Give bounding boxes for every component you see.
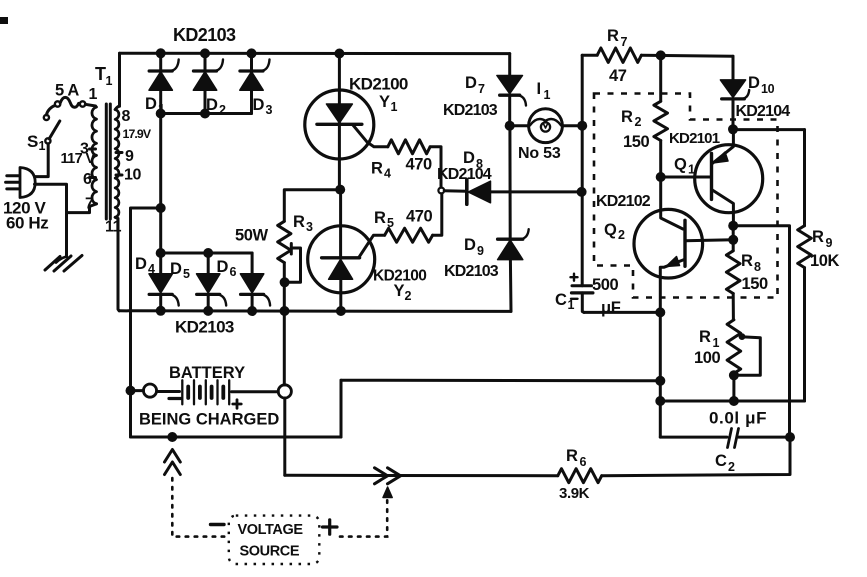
svg-text:R: R [374,209,386,227]
T1 primary tap 3 tick [90,148,96,151]
transistor Q1 KD2101 [661,130,763,226]
transformer T1 primary winding [90,107,97,207]
wire R6 to C2 node [602,437,790,476]
SCR Y2 KD2100 [308,190,385,311]
wire plug neutral to ground node [35,184,67,212]
AC plug P1 [6,168,36,198]
node R1 bottom wiper junction [729,370,739,380]
svg-text:9: 9 [125,148,134,165]
wire R4 to D8 node [430,147,441,188]
label uF (C1) [601,299,621,317]
label 17.9V [123,127,152,141]
label D6 [217,258,237,279]
svg-text:T: T [95,64,106,84]
label Q2 [604,221,625,242]
T1 primary tap 6 tick [90,176,96,179]
scan mark left edge [0,17,8,24]
svg-text:8: 8 [122,108,131,125]
svg-text:2: 2 [618,228,625,242]
resistor R6 3.9K [558,469,602,483]
wire R6 row left [285,474,558,477]
voltage source plus sign [323,520,338,534]
dashed wire voltage source plus lead [340,498,387,537]
label 100 [694,349,721,367]
capacitor C1 500uF [571,274,593,313]
transformer T1 secondary winding [115,106,119,219]
label 150 (R2) [623,133,650,151]
node row C at Q2 emitter column [655,396,665,406]
label R5 [374,209,394,230]
svg-text:150: 150 [623,133,650,151]
label pin 11 [105,219,122,236]
node D2 anode [200,109,210,119]
label pin 10 [124,167,141,184]
svg-text:500: 500 [592,276,619,294]
svg-text:7: 7 [478,82,485,96]
svg-text:10K: 10K [810,252,840,270]
node D5 anode [203,248,213,258]
svg-text:R: R [621,108,633,126]
label D3 [253,96,273,117]
node gate network (open) [438,188,444,194]
label 50W [235,227,269,245]
transformer T1 core [106,104,110,219]
resistor R8 150 [726,226,740,320]
node Q2 base / R8 top [728,235,738,245]
svg-text:4: 4 [148,262,155,276]
label KD2104 (D8) [437,166,492,183]
svg-text:2: 2 [728,460,735,474]
label T1 [95,64,113,88]
svg-text:S: S [27,132,38,151]
svg-text:μF: μF [601,299,621,317]
resistor R9 10K [798,130,812,401]
svg-text:KD2102: KD2102 [596,193,651,210]
node D4 anode [156,248,166,258]
svg-text:R: R [699,328,711,346]
svg-text:I: I [537,80,541,98]
label VOLTAGE [238,522,304,538]
label 0.01 uF [709,409,767,428]
svg-text:9: 9 [826,236,833,250]
wire plug hot to switch [35,144,49,177]
svg-text:R: R [293,213,305,231]
label BATTERY [169,364,245,382]
svg-text:D: D [170,260,182,278]
svg-text:1: 1 [713,336,720,350]
label D7 [465,74,485,96]
svg-text:D: D [145,95,157,113]
diode D8 KD2104 [444,180,581,204]
svg-text:2: 2 [405,289,412,303]
node D10 cathode / Q1 emitter [728,124,738,134]
node Y1-Y2 midpoint [335,185,345,195]
svg-text:D: D [253,96,265,114]
lamp I1 No53 [510,109,583,143]
node D8 anode at C1 column [577,187,587,197]
label Y1 [379,93,398,114]
svg-text:1: 1 [391,100,398,114]
battery minus sign [169,397,181,400]
node D3 cathode at top bus [247,48,257,58]
svg-text:9: 9 [477,244,484,258]
wire D4-D6 anode bus [161,252,252,255]
svg-text:60 Hz: 60 Hz [6,214,48,233]
svg-text:BEING CHARGED: BEING CHARGED [139,411,279,429]
wire R3 bottom to battery positive [283,263,286,385]
diode D1 KD2103 [149,53,179,113]
fuse F1 5A [55,97,85,107]
svg-text:D: D [748,74,760,92]
svg-text:KD2100: KD2100 [349,75,408,94]
label KD2102 [596,193,651,210]
node D4 cathode [156,306,166,316]
R1 wiper arm [736,333,761,375]
svg-text:3: 3 [266,103,273,117]
label R9 [812,228,833,250]
diode D4 KD2103 [149,253,179,311]
wire D10 node to R9 [733,128,805,131]
label Q1 [674,156,695,177]
svg-text:6: 6 [580,455,587,469]
node D7 cathode [505,121,515,131]
svg-text:470: 470 [406,156,433,174]
label KD2103 (D1-D3) [173,25,236,45]
svg-text:Y: Y [394,282,405,300]
label 117V [61,151,96,167]
label pin 1 [89,86,98,103]
svg-text:C: C [715,452,727,470]
svg-text:Q: Q [674,156,687,174]
node Y2 anode at cathode bus [336,306,346,316]
label pin 6 [83,171,92,188]
voltage source plus arrowhead [383,487,392,498]
wire Y1Y2 node to R3 [284,190,340,222]
voltage source minus arrow chevrons [165,450,181,475]
battery plus sign [233,400,241,408]
label KD2100 (Y2) [373,268,426,285]
label 500 [592,276,619,294]
svg-text:BATTERY: BATTERY [169,364,245,382]
resistor R4 470 [388,140,430,154]
capacitor C2 0.01uF [660,429,790,448]
wire fuse to transformer pin 1 [85,104,95,106]
svg-text:KD2104: KD2104 [736,103,791,120]
svg-text:R: R [607,27,619,45]
svg-text:5: 5 [183,267,190,281]
label 470 (R5) [406,208,433,226]
svg-text:470: 470 [406,208,433,226]
svg-text:1: 1 [158,102,165,116]
svg-text:3: 3 [306,220,313,234]
svg-text:R: R [566,447,578,465]
label 5A [55,82,79,100]
node battery negative column [126,386,136,396]
node R7-R2 junction [656,50,666,60]
label D9 [464,236,484,258]
node D1 cathode at top bus [156,48,166,58]
svg-text:6: 6 [230,265,237,279]
wire sense column up [340,380,343,437]
svg-text:0.0l μF: 0.0l μF [709,409,767,428]
label BEING CHARGED [139,411,279,429]
svg-text:SOURCE: SOURCE [240,544,300,560]
label pin 9 [125,148,134,165]
svg-text:2: 2 [219,103,226,117]
diode D3 KD2103 [240,53,270,113]
label 120 V [3,199,46,218]
svg-text:100: 100 [694,349,721,367]
svg-text:D: D [206,96,218,114]
wire branch to battery negative column [131,208,161,437]
switch S1 [44,106,60,144]
svg-text:1: 1 [688,163,695,177]
label pin 7 [85,196,94,213]
svg-text:Y: Y [379,93,390,111]
label 47 [609,67,627,85]
svg-text:KD2103: KD2103 [175,318,234,337]
ground node junction [65,213,68,257]
svg-text:D: D [463,149,475,167]
svg-text:1: 1 [89,86,98,103]
label Y2 [394,282,412,303]
node battery neg rail tap [167,432,177,442]
node I1 to R7 column [577,121,587,131]
SCR Y1 KD2100 [305,53,388,189]
wire battery negative rail [131,436,342,439]
label 150 (R8) [742,275,769,293]
wire battery positive column [283,385,286,476]
node D2 cathode at top bus [200,48,210,58]
svg-text:7: 7 [621,35,628,49]
label D1 [145,95,165,116]
wire cathode bus D4-D6 [119,309,511,313]
wire row C [660,400,804,403]
label S1 [27,132,46,153]
node C2 right junction [785,432,795,442]
svg-text:47: 47 [609,67,627,85]
label KD2100 (Y1) [349,75,408,94]
wire tap11 column [118,219,119,311]
diode D5 KD2103 [197,253,227,311]
svg-text:C: C [555,291,567,309]
svg-text:10: 10 [761,82,775,96]
svg-text:8: 8 [754,260,761,274]
svg-text:1: 1 [39,139,46,153]
svg-text:R: R [812,228,824,246]
node Q1 collector bottom [728,221,738,231]
label R3 [293,213,313,234]
label I1 [537,80,551,102]
wire row A C1 bottom to Q2 emitter column [584,311,660,314]
label KD2103 (D7) [443,102,498,119]
node center column junction [156,203,166,213]
svg-text:17.9V: 17.9V [123,127,152,141]
svg-text:7: 7 [85,196,94,213]
label KD2103 (D9) [444,263,499,280]
diode D9 KD2103 [498,126,529,312]
diode D10 KD2104 [720,56,749,129]
label R4 [371,160,391,181]
voltage source minus sign [211,523,225,526]
node battery positive at cathode bus [280,306,290,316]
svg-text:117 V: 117 V [61,151,96,167]
svg-text:VOLTAGE: VOLTAGE [238,522,304,538]
resistor R1 100 [727,320,741,401]
svg-text:Q: Q [604,221,617,239]
label KD2104 (D10) [736,103,791,120]
svg-text:No 53: No 53 [518,145,561,162]
svg-text:150: 150 [742,275,769,293]
external source chevrons [375,468,401,484]
dashed box around regulator [594,94,778,298]
label KD2101 [669,130,720,147]
svg-text:4: 4 [384,167,391,181]
resistor R7 47 [582,48,733,62]
svg-text:50W: 50W [235,227,269,245]
label D4 [135,255,155,276]
svg-text:KD2101: KD2101 [669,130,720,147]
svg-text:KD2104: KD2104 [437,166,492,183]
svg-text:6: 6 [83,171,92,188]
label No 53 [518,145,561,162]
label D10 [748,74,775,96]
label KD2103 (D4-D6) [175,318,234,337]
wire tap8 column to top bus [118,53,121,106]
label R8 [741,252,761,274]
battery negative terminal [131,384,157,397]
node Y1 anode at top bus [334,49,344,59]
node row B at Q2 emitter column [655,376,665,386]
wire center column D1 anode to D4 anode [159,114,162,254]
node row A junction [655,307,665,317]
node R2 bottom / Q1 base / Q2 collector [656,172,666,182]
label pin 3 [80,141,89,158]
R3 wiper tick [290,244,293,255]
resistor R5 470 [385,228,433,242]
svg-text:R: R [741,252,753,270]
transistor Q2 KD2102 [634,177,733,437]
label D5 [170,260,190,281]
label R1 [699,328,720,350]
node D5 cathode [203,306,213,316]
wire R5 to D8 node [433,193,442,235]
label 10K [810,252,840,270]
label SOURCE [240,544,300,560]
label 3.9K [559,485,590,502]
svg-text:10: 10 [124,167,141,184]
battery cells [157,380,279,404]
label 60 Hz [6,214,48,233]
svg-text:D: D [464,236,476,254]
label R7 [607,27,628,49]
wire D1-D3 anode bus [161,112,252,115]
diode D6 KD2103 [240,253,270,311]
node D1 anode [156,109,166,119]
label D2 [206,96,226,117]
svg-text:D: D [465,74,477,92]
label R6 [566,447,587,469]
wire C1 column [581,55,584,286]
label D8 [463,149,483,171]
wire Q1 collector to C2 right column [733,226,789,437]
node D6 cathode [247,306,257,316]
node R3 wiper junction [280,277,290,287]
label R2 [621,108,642,129]
svg-text:KD2103: KD2103 [444,263,499,280]
svg-text:KD2103: KD2103 [173,25,236,45]
wire top bus (+ rail) [120,52,510,55]
diode D2 KD2103 [193,53,223,113]
svg-text:D: D [217,258,229,276]
voltage source dashed box [229,516,319,564]
resistor R3 50W [278,221,291,262]
resistor R2 150 [654,55,668,177]
wire transformer pin7 to ground node [67,207,90,213]
diode D7 KD2103 [497,54,526,126]
dashed wire voltage source minus lead [172,478,229,537]
label C1 [555,291,575,312]
svg-text:KD2103: KD2103 [443,102,498,119]
svg-text:2: 2 [635,115,642,129]
label pin 8 [122,108,131,125]
node R1 bottom at row C [729,396,739,406]
svg-text:R: R [371,160,383,178]
T1 secondary tap 10 tick [116,174,122,177]
label 470 (R4) [406,156,433,174]
svg-text:1: 1 [544,88,551,102]
svg-text:D: D [135,255,147,273]
svg-text:1: 1 [106,74,113,88]
ground symbol [45,256,82,272]
svg-text:3.9K: 3.9K [559,485,590,502]
T1 secondary tap 9 tick [116,151,122,154]
svg-text:1: 1 [568,298,575,312]
wire row B sense line [341,379,660,383]
R3 wiper arm [286,248,301,282]
label C2 [715,452,735,474]
svg-text:5 A: 5 A [55,82,79,100]
svg-text:5: 5 [387,216,394,230]
battery positive terminal [278,385,291,398]
